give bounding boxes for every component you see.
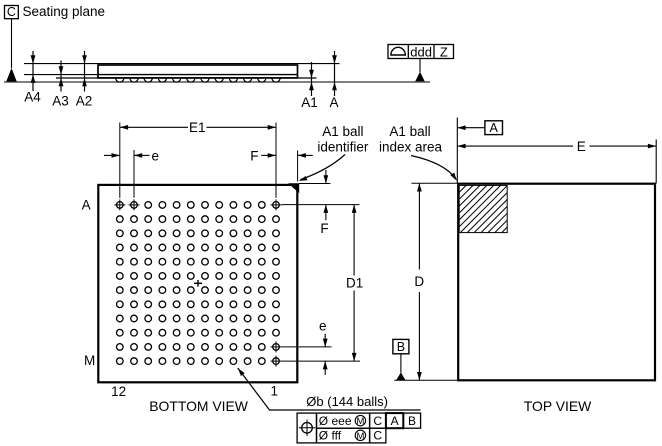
label A1 ball index area [379,124,443,155]
ball grid 12x12 [117,202,280,365]
A1 index area leader [411,156,457,181]
datum B triangle [396,372,405,380]
svg-text:e: e [319,319,327,334]
svg-text:M: M [356,431,364,442]
datum C box [5,5,19,19]
dimension e horizontal [104,148,159,163]
ddd tolerance frame [388,44,454,59]
svg-text:A2: A2 [76,94,93,109]
svg-text:A: A [329,95,338,110]
top view package outline [458,184,655,381]
side view substrate top line left ext [24,74,98,76]
extension line row L [282,346,332,348]
svg-text:A: A [391,414,399,428]
datum C triangle [6,68,16,81]
dimension A [329,51,338,110]
svg-text:A1: A1 [301,95,318,110]
dimension A4 [24,51,41,105]
side view package body [98,65,298,78]
dimension e vertical [319,319,328,375]
svg-text:E1: E1 [189,120,206,135]
E extension line right [655,140,657,184]
datum A extension line [456,118,458,184]
svg-text:E: E [577,139,586,154]
svg-text:identifier: identifier [317,140,369,155]
svg-text:D1: D1 [346,276,363,291]
bottom view package outline [98,185,297,382]
extension line package right edge [297,151,299,182]
svg-text:F: F [320,221,328,236]
svg-text:1: 1 [271,384,279,399]
svg-text:Ø fff: Ø fff [319,429,342,443]
svg-text:M: M [84,353,95,368]
dimension F vertical [320,170,328,236]
svg-text:C: C [373,429,382,443]
column label 1 [271,384,279,399]
label Ob 144 balls [306,394,388,409]
svg-text:C: C [7,5,16,19]
row label A [82,197,91,212]
label Seating plane [23,4,106,19]
svg-text:e: e [152,148,160,163]
side view body/substrate interface line [98,74,298,76]
datum B stem [400,354,402,373]
svg-text:Ø eee: Ø eee [319,414,352,428]
svg-text:B: B [408,414,416,428]
side view substrate bottom line [56,77,317,79]
svg-text:A4: A4 [24,90,41,105]
extension line row A [282,204,360,206]
dimension F horizontal [250,148,313,163]
svg-text:A: A [490,121,499,135]
column label 12 [111,384,126,399]
extension line col1 [275,123,277,198]
datum B box [393,339,409,353]
row label M [84,353,95,368]
A1 identifier leader [299,155,345,181]
svg-text:index area: index area [379,140,443,155]
side view solder balls row [116,78,280,82]
crossed datum balls A12 A11 A1 L1 M1 [114,199,281,366]
dimension D1 [346,205,363,362]
dimension D [414,183,424,380]
seating plane line [4,81,430,83]
svg-text:12: 12 [111,384,126,399]
svg-text:ddd: ddd [410,44,432,59]
extension line row M [282,360,360,362]
svg-text:TOP VIEW: TOP VIEW [524,398,592,414]
svg-text:A1 ball: A1 ball [322,124,363,139]
svg-text:B: B [397,340,405,354]
dimension E1 [120,120,276,135]
svg-text:Z: Z [440,44,448,59]
D extension line top [412,182,458,184]
svg-text:F: F [250,148,258,163]
datum A box [485,121,503,135]
extension line package top right [299,183,330,185]
tolerance frame Ob [297,413,420,443]
svg-text:A3: A3 [52,94,69,109]
side view top line [24,63,340,65]
dimension A2 [76,51,93,109]
label A1 ball identifier [317,124,369,155]
svg-text:M: M [356,416,364,427]
ddd leader line [419,59,421,73]
A1 ball index area hatch [459,185,507,232]
dimension E [457,139,656,154]
svg-text:Øb (144 balls): Øb (144 balls) [306,394,388,409]
D extension line bottom [394,379,457,381]
caption TOP VIEW [524,398,592,414]
svg-text:C: C [373,414,382,428]
caption BOTTOM VIEW [149,398,248,414]
dimension A1 [301,62,318,110]
extension line col12 [119,123,121,198]
svg-text:BOTTOM VIEW: BOTTOM VIEW [149,398,248,414]
svg-text:D: D [414,274,424,289]
datum C leader line [11,19,13,68]
grid center cross [194,280,202,287]
datum A leader [457,125,485,130]
A1 corner chamfer [288,183,299,193]
ddd datum triangle [415,72,424,81]
svg-text:A: A [82,197,91,212]
svg-text:Seating plane: Seating plane [23,4,106,19]
dimension A3 [52,61,69,109]
extension line col11 [133,150,135,198]
svg-text:A1 ball: A1 ball [389,124,430,139]
Ob leader line [238,368,421,410]
